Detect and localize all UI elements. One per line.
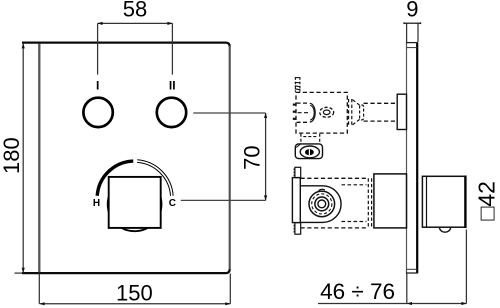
valve body left thread nubs [293, 105, 296, 119]
dimension 9 lines [403, 22, 421, 42]
cartridge dashed cylinder outer [301, 178, 367, 228]
cartridge dashed circle [312, 194, 332, 214]
shaft back flange [360, 105, 364, 120]
inlet port side (dashed rounded plug) [297, 103, 316, 122]
svg-text:70: 70 [239, 145, 264, 169]
lower flange top stub [294, 167, 301, 177]
svg-text:180: 180 [0, 137, 24, 174]
valve top stub [295, 77, 301, 92]
cartridge dashed cylinder inner [342, 185, 367, 222]
outlet eye outer ellipse [300, 146, 319, 158]
cartridge key notch [319, 189, 326, 190]
outlet eye inner [305, 149, 314, 155]
outlet neck dashed [301, 134, 320, 145]
button I circle [83, 98, 112, 127]
valve body dashed outline [296, 92, 347, 133]
svg-text:H: H [93, 198, 100, 209]
leader from C knob [181, 199, 266, 201]
svg-text:□42: □42 [473, 181, 499, 220]
svg-text:58: 58 [123, 0, 147, 22]
svg-text:II: II [169, 79, 176, 93]
button II circle [157, 98, 186, 127]
dimension 70 line [264, 113, 267, 201]
lower thread dashes [368, 178, 371, 228]
body right thread dashes [349, 99, 352, 125]
svg-text:150: 150 [116, 280, 153, 305]
svg-text:I: I [96, 79, 99, 93]
knob safety button bump [439, 228, 450, 232]
svg-text:46 ÷ 76: 46 ÷ 76 [320, 279, 395, 304]
knob square [109, 177, 161, 228]
lower flange bar [292, 178, 300, 223]
dimension 150 line [39, 274, 230, 306]
shaft cylinder dashed [364, 103, 398, 121]
knob base circle [108, 177, 162, 231]
cartridge circle r7 [315, 197, 329, 211]
outlet bracket [295, 144, 322, 159]
leader from button II [193, 112, 265, 114]
svg-text:9: 9 [406, 0, 418, 21]
lower flange bottom stub [294, 223, 301, 235]
body center ellipse inner [323, 110, 330, 115]
wall plate side view [406, 43, 418, 273]
cartridge circle r4 [318, 200, 326, 208]
upper sleeve [397, 94, 406, 129]
body center ellipse outer [320, 107, 334, 117]
temperature arc thin inner (C side) [137, 162, 170, 195]
taper to shaft [353, 100, 360, 125]
svg-text:C: C [169, 198, 176, 209]
lower sleeve [374, 174, 407, 228]
dimension 58 line [97, 22, 172, 75]
cartridge circle r13 [309, 191, 335, 217]
dimension 180 line [15, 43, 25, 273]
cartridge shroud D-shape [301, 186, 341, 223]
dimension 46-76 lines [318, 230, 467, 306]
knob side view [422, 176, 465, 229]
temperature arc thin outer (C side) [137, 160, 173, 196]
plate front view outline [22, 43, 230, 274]
temperature arc thick (H side) [97, 161, 133, 196]
